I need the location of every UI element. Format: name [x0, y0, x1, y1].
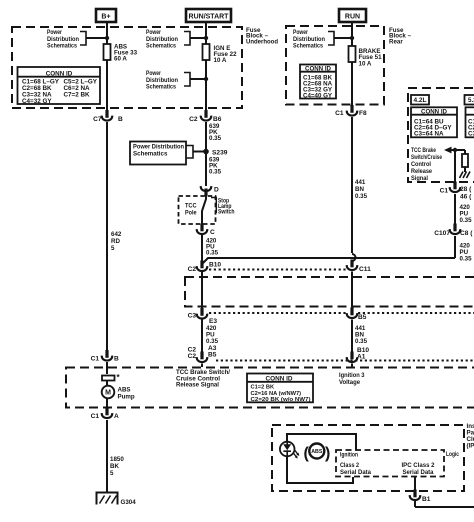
- svg-text:B6: B6: [213, 116, 222, 123]
- svg-text:Switch: Switch: [218, 209, 235, 216]
- svg-text:28 (: 28 (: [460, 186, 472, 193]
- svg-text:C7: C7: [93, 116, 102, 123]
- svg-text:0.35: 0.35: [209, 135, 222, 142]
- svg-text:Release Signal: Release Signal: [176, 382, 219, 389]
- svg-text:Power Distribution: Power Distribution: [133, 144, 184, 151]
- svg-text:E3: E3: [209, 318, 217, 325]
- svg-text:Schematics: Schematics: [146, 43, 176, 50]
- svg-text:D: D: [214, 187, 219, 194]
- svg-text:0.35: 0.35: [206, 250, 219, 257]
- svg-text:Rear: Rear: [389, 39, 403, 46]
- svg-text:ABS: ABS: [311, 449, 323, 455]
- svg-text:CONN ID: CONN ID: [266, 375, 294, 382]
- svg-text:Schematics: Schematics: [133, 151, 168, 158]
- svg-text:B: B: [114, 356, 119, 363]
- svg-text:TCC Brake: TCC Brake: [411, 147, 436, 154]
- svg-text:Schematics: Schematics: [293, 43, 323, 50]
- svg-text:C2: C2: [188, 266, 197, 273]
- svg-text:B+: B+: [101, 14, 110, 21]
- svg-text:C107: C107: [434, 230, 450, 237]
- svg-text:4.2L: 4.2L: [414, 97, 427, 104]
- svg-text:0.35: 0.35: [355, 193, 368, 200]
- svg-text:B: B: [118, 116, 123, 123]
- svg-text:M: M: [105, 390, 111, 397]
- svg-text:Switch/Cruise: Switch/Cruise: [411, 154, 442, 161]
- svg-text:C4=32 GY: C4=32 GY: [22, 98, 52, 105]
- svg-text:B10: B10: [209, 262, 221, 269]
- svg-text:46 (: 46 (: [460, 194, 472, 201]
- svg-text:0.35: 0.35: [460, 217, 473, 224]
- svg-text:Serial Data: Serial Data: [340, 469, 372, 476]
- svg-text:RUN: RUN: [345, 14, 360, 21]
- svg-text:Control: Control: [411, 161, 431, 168]
- svg-text:B1: B1: [422, 496, 431, 503]
- svg-text:C2: C2: [189, 116, 198, 123]
- svg-text:C11: C11: [359, 266, 371, 273]
- svg-text:Pole: Pole: [185, 209, 197, 216]
- svg-text:CONN ID: CONN ID: [421, 109, 448, 115]
- svg-text:0.35: 0.35: [206, 338, 219, 345]
- svg-text:C3: C3: [468, 131, 474, 138]
- svg-text:C8 (: C8 (: [460, 230, 473, 237]
- svg-text:Pump: Pump: [118, 394, 135, 401]
- svg-text:441: 441: [355, 179, 366, 186]
- svg-text:CONN ID: CONN ID: [305, 67, 332, 73]
- svg-text:C4=40 GY: C4=40 GY: [303, 92, 333, 99]
- svg-text:C3=64 NA: C3=64 NA: [414, 131, 444, 138]
- svg-text:IPC Class 2: IPC Class 2: [402, 462, 436, 469]
- svg-text:RD: RD: [111, 238, 120, 245]
- svg-text:5.3: 5.3: [468, 97, 474, 104]
- svg-text:A1: A1: [357, 354, 366, 361]
- svg-text:10 A: 10 A: [214, 57, 227, 64]
- svg-text:Signal: Signal: [411, 175, 428, 182]
- svg-text:C1: C1: [91, 356, 100, 363]
- svg-text:Ignition: Ignition: [340, 452, 358, 459]
- svg-text:60 A: 60 A: [114, 56, 127, 63]
- svg-text:Schematics: Schematics: [47, 43, 77, 50]
- svg-text:5: 5: [110, 470, 114, 477]
- svg-text:C1: C1: [91, 413, 100, 420]
- svg-text:B5: B5: [358, 314, 367, 321]
- svg-text:0.35: 0.35: [209, 169, 222, 176]
- svg-text:S239: S239: [212, 150, 228, 157]
- svg-text:B5: B5: [208, 352, 217, 359]
- svg-text:1850: 1850: [110, 456, 124, 463]
- svg-text:): ): [325, 445, 330, 462]
- svg-text:0.35: 0.35: [355, 338, 368, 345]
- svg-text:Schematics: Schematics: [146, 84, 176, 91]
- svg-text:BK: BK: [110, 463, 119, 470]
- svg-text:C1=2 BK: C1=2 BK: [251, 384, 275, 390]
- svg-text:BN: BN: [355, 186, 364, 193]
- svg-text:Serial Data: Serial Data: [403, 469, 435, 476]
- svg-text:(IPC): (IPC): [467, 443, 474, 450]
- svg-text:C1: C1: [440, 188, 449, 195]
- svg-text:0.35: 0.35: [460, 256, 473, 263]
- svg-text:(: (: [304, 445, 310, 462]
- svg-text:C1: C1: [335, 110, 344, 117]
- svg-text:C: C: [210, 229, 215, 236]
- svg-text:C2: C2: [188, 353, 197, 360]
- svg-text:10 A: 10 A: [359, 60, 372, 67]
- svg-text:F8: F8: [359, 110, 367, 117]
- svg-text:G304: G304: [121, 499, 137, 506]
- svg-text:C7=2 BK: C7=2 BK: [64, 91, 91, 98]
- svg-text:C2=16 NA (w/NW7): C2=16 NA (w/NW7): [251, 391, 302, 397]
- svg-text:C3: C3: [188, 313, 197, 320]
- svg-text:ABS: ABS: [118, 387, 131, 394]
- svg-text:Logic: Logic: [446, 451, 459, 458]
- svg-text:Release: Release: [411, 168, 432, 175]
- svg-text:RUN/START: RUN/START: [189, 14, 230, 21]
- svg-text:642: 642: [111, 231, 122, 238]
- svg-text:Voltage: Voltage: [339, 379, 361, 386]
- svg-text:C2=20 BK (w/o NW7): C2=20 BK (w/o NW7): [251, 397, 311, 403]
- svg-text:CONN ID: CONN ID: [46, 70, 73, 77]
- svg-text:Class 2: Class 2: [340, 462, 359, 469]
- svg-text:5: 5: [111, 245, 115, 252]
- svg-text:Underhood: Underhood: [246, 39, 278, 46]
- svg-text:A: A: [114, 413, 119, 420]
